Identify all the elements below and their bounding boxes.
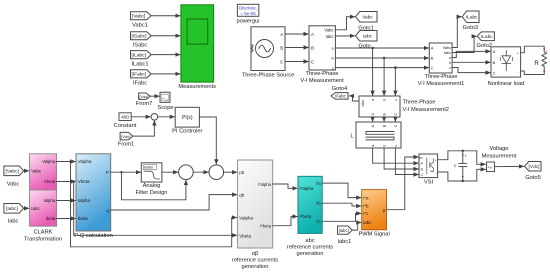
svg-text:Ialpha: Ialpha	[78, 198, 91, 203]
From tag IFabc	[131, 70, 152, 78]
wire Valpha	[57, 161, 76, 163]
svg-text:Three-Phase: Three-Phase	[403, 100, 436, 106]
svg-text:IFabc: IFabc	[335, 94, 345, 99]
svg-text:b: b	[383, 99, 387, 101]
block abc reference currents generation (cyan)	[298, 176, 322, 233]
wire sum1 to PI	[158, 116, 175, 118]
wire source C	[285, 61, 308, 63]
sum block 2	[179, 165, 194, 180]
wire Iabc to CLARK	[24, 207, 29, 209]
wire Ibeta	[57, 218, 76, 220]
svg-text:ILabc1: ILabc1	[131, 61, 148, 67]
svg-text:c: c	[394, 145, 398, 147]
powergui block	[237, 4, 258, 16]
wire sum2 to sum3	[193, 171, 208, 173]
svg-text:ISabc: ISabc	[133, 43, 148, 49]
svg-text:[Vabc]: [Vabc]	[6, 169, 19, 175]
bus wire c	[335, 67, 428, 69]
svg-text:C: C	[394, 124, 398, 127]
svg-text:Ibeta: Ibeta	[46, 216, 56, 221]
sum block 1	[151, 114, 158, 121]
svg-text:iabc1: iabc1	[338, 239, 352, 245]
bus wire a	[335, 47, 428, 49]
svg-text:Goto5: Goto5	[525, 175, 541, 181]
svg-text:i*beta: i*beta	[260, 224, 272, 229]
node Vbeta tap	[73, 180, 75, 182]
svg-text:Iabc: Iabc	[31, 206, 40, 211]
Goto tag Vdc (Goto5)	[525, 162, 542, 172]
svg-text:Goto2: Goto2	[477, 43, 493, 49]
svg-text:A: A	[311, 32, 314, 37]
wire Vabc to CLARK	[24, 170, 29, 172]
svg-text:A: A	[431, 46, 434, 51]
wire i*beta to abc-gen	[273, 217, 298, 226]
svg-text:i*c: i*c	[316, 219, 321, 224]
svg-text:+: +	[465, 154, 468, 159]
wire source A	[285, 33, 308, 35]
From tag Iabc (bottom left)	[4, 204, 24, 214]
resistor R	[542, 49, 547, 71]
svg-text:αβ: αβ	[252, 251, 259, 257]
svg-text:C: C	[431, 65, 434, 70]
svg-text:C: C	[493, 70, 496, 75]
wire From7 to Scope	[150, 95, 159, 97]
svg-text:IFabc: IFabc	[133, 81, 147, 87]
svg-text:i*a: i*a	[363, 195, 369, 200]
wire q to ab-gen qb	[111, 195, 237, 210]
svg-text:V-I Measurement: V-I Measurement	[300, 78, 344, 84]
svg-text:Vabc: Vabc	[31, 169, 42, 174]
svg-text:PWM Signal: PWM Signal	[358, 232, 389, 238]
wire Voltage Measurement to Goto5	[495, 165, 524, 167]
svg-text:i*c: i*c	[363, 211, 369, 216]
svg-text:c: c	[394, 99, 398, 101]
svg-text:powergui: powergui	[236, 19, 259, 25]
svg-text:Valpha: Valpha	[78, 159, 92, 164]
svg-text:c: c	[449, 66, 451, 70]
From tag Vdc (From7)	[139, 93, 151, 99]
svg-text:generation: generation	[242, 264, 269, 270]
svg-text:i*alpha: i*alpha	[258, 182, 272, 187]
svg-text:[ISabc]: [ISabc]	[132, 34, 147, 40]
svg-text:Ialpha: Ialpha	[43, 198, 55, 203]
svg-text:+v: +v	[487, 165, 491, 170]
svg-text:+: +	[546, 50, 548, 54]
svg-text:PI Controler: PI Controler	[172, 129, 202, 135]
svg-text:Iabc: Iabc	[326, 34, 334, 39]
svg-text:Vabc1: Vabc1	[132, 23, 148, 29]
block P-Q calculation	[76, 154, 111, 231]
svg-text:Iabc: Iabc	[8, 219, 19, 225]
svg-text:A: A	[493, 49, 496, 54]
svg-text:Vabc: Vabc	[324, 28, 333, 33]
svg-text:Goto3: Goto3	[463, 25, 479, 31]
block VSI (inverter)	[419, 154, 438, 178]
svg-text:Iabc: Iabc	[444, 51, 451, 55]
svg-text:Iabc: Iabc	[363, 34, 373, 40]
svg-text:i*beta: i*beta	[300, 214, 312, 219]
svg-text:a: a	[371, 99, 375, 101]
svg-text:VSI: VSI	[424, 179, 434, 185]
svg-text:reference currents: reference currents	[232, 257, 278, 263]
diode D	[500, 51, 512, 71]
wire PI to sum3	[199, 117, 216, 164]
From tag iabc1	[338, 226, 353, 234]
node tap c	[394, 66, 397, 69]
node tap b	[383, 57, 386, 60]
From tag Vdc (From1)	[120, 132, 133, 140]
svg-text:i*a: i*a	[316, 181, 322, 186]
svg-text:P-Q calculation: P-Q calculation	[74, 233, 113, 239]
From tag ISabc	[131, 32, 152, 40]
svg-text:Scope: Scope	[157, 105, 173, 111]
svg-text:[Vdc]: [Vdc]	[529, 164, 540, 170]
svg-text:[Vabc]: [Vabc]	[132, 14, 145, 20]
svg-text:b: b	[383, 145, 387, 147]
block Measurements (green scope subsystem)	[181, 5, 214, 82]
svg-text:B: B	[280, 45, 283, 50]
svg-text:i*b: i*b	[316, 201, 322, 206]
capacitor c branch	[459, 151, 467, 181]
wire Valpha tap to ab-gen	[71, 162, 237, 247]
node tap a	[371, 47, 374, 50]
svg-text:= 5e-05: = 5e-05	[240, 11, 256, 16]
svg-text:P: P	[106, 170, 109, 175]
svg-text:i*alpha: i*alpha	[300, 186, 314, 191]
From tag Vabc (bottom left)	[4, 166, 24, 176]
wires Measurement2 to L	[372, 117, 374, 121]
svg-text:Goto: Goto	[358, 44, 370, 50]
wire tap a down	[372, 48, 374, 95]
wire i*c to PWM	[322, 213, 361, 221]
svg-text:From1: From1	[118, 142, 134, 148]
wire Ialpha	[57, 200, 76, 202]
svg-text:b: b	[331, 57, 333, 61]
svg-text:+: +	[517, 52, 519, 56]
svg-text:[Vdc]: [Vdc]	[121, 134, 130, 139]
svg-text:generation: generation	[297, 251, 324, 257]
wire i*b to PWM	[322, 203, 361, 206]
svg-text:c: c	[332, 66, 334, 70]
svg-text:L: L	[350, 134, 353, 140]
block Three-Phase V-I Measurement2 (rotated)	[359, 96, 400, 117]
svg-text:Measurements: Measurements	[178, 84, 216, 90]
Goto tag Vabc (Goto1)	[356, 12, 378, 23]
svg-text:qb: qb	[239, 192, 245, 197]
block ab reference currents generation (gray)	[238, 160, 273, 248]
svg-text:buffer: buffer	[144, 166, 154, 170]
wire Vabc to Goto1	[335, 17, 354, 30]
block Nonlinear load	[491, 47, 521, 77]
wire load + to R	[521, 46, 545, 53]
svg-text:b: b	[449, 61, 451, 65]
svg-text:[ILabc]: [ILabc]	[132, 53, 146, 59]
node Valpha tap	[69, 160, 71, 162]
block Analog Filter Design	[141, 163, 162, 182]
From tag ILabc1	[131, 51, 152, 59]
svg-text:Ibeta: Ibeta	[78, 216, 89, 221]
wire Measurement1 b to load B	[452, 61, 490, 63]
svg-text:abc: abc	[305, 238, 314, 244]
wire sum3 to pb	[224, 171, 237, 173]
svg-text:Discrete,: Discrete,	[239, 6, 257, 11]
svg-text:CLARK: CLARK	[34, 230, 53, 236]
wire From1 to sum1	[133, 121, 155, 136]
svg-text:+: +	[435, 159, 437, 163]
svg-text:Constant: Constant	[114, 123, 137, 129]
wire load - to R	[521, 71, 545, 75]
svg-text:Voltage: Voltage	[490, 146, 509, 152]
wire Vbeta tap to ab-gen	[74, 182, 237, 236]
svg-text:reference currents: reference currents	[287, 245, 333, 251]
svg-text:PI(s): PI(s)	[182, 115, 193, 121]
block PI Controller	[175, 107, 199, 127]
block PWM Signal (orange)	[362, 190, 387, 230]
wire Measurement1 c to load C	[452, 68, 490, 73]
svg-text:Three-Phase Source: Three-Phase Source	[242, 73, 294, 79]
svg-text:Three-Phase: Three-Phase	[425, 74, 458, 80]
From tag Vabc1	[131, 12, 152, 20]
svg-text:iabc: iabc	[363, 220, 372, 225]
svg-text:Vabc: Vabc	[362, 15, 373, 21]
block Three-Phase Source	[251, 27, 285, 71]
svg-text:B: B	[311, 45, 314, 50]
svg-text:Valpha: Valpha	[239, 215, 253, 220]
wire ISabc to Measurements	[151, 35, 180, 37]
wire source B	[285, 47, 308, 49]
Goto tag ILabc (Goto3)	[462, 11, 479, 23]
svg-text:Vabc: Vabc	[443, 46, 451, 50]
Goto tag Iabc (Goto)	[356, 31, 378, 42]
svg-text:Valpha: Valpha	[42, 159, 56, 164]
svg-text:[Iabc]: [Iabc]	[6, 206, 18, 212]
svg-text:Transformation: Transformation	[24, 237, 62, 243]
wire i*a to PWM	[322, 183, 361, 198]
wire 400 to sum1	[131, 116, 150, 118]
wire L c to VSI C	[395, 148, 418, 175]
svg-text:Iabc: Iabc	[361, 100, 365, 107]
svg-text:From7: From7	[136, 101, 152, 107]
svg-text:Nonlinear load: Nonlinear load	[488, 81, 525, 87]
svg-text:Vabc: Vabc	[7, 182, 20, 188]
svg-text:Analog: Analog	[143, 183, 161, 189]
svg-text:Goto4: Goto4	[332, 86, 348, 92]
wire Measurement1 Iabc to Goto2	[452, 36, 476, 52]
svg-text:a: a	[449, 56, 451, 60]
block Three-Phase V-I Measurement	[309, 26, 335, 70]
svg-text:V-I Measurement2: V-I Measurement2	[403, 107, 449, 113]
svg-text:i*b: i*b	[363, 204, 369, 209]
wire Vabc1 to Measurements	[151, 15, 180, 17]
wire filter to sum2	[162, 171, 178, 173]
svg-text:Vbeta: Vbeta	[78, 179, 90, 184]
wire iabc1 to PWM	[352, 223, 361, 231]
svg-text:pb: pb	[239, 170, 245, 175]
svg-text:g: g	[418, 157, 422, 159]
sum block 3	[209, 165, 224, 180]
svg-text:a: a	[371, 145, 375, 147]
svg-text:ILabc: ILabc	[481, 34, 493, 40]
block Constant 400	[119, 113, 131, 121]
wire L b to VSI B	[384, 148, 418, 169]
svg-text:B: B	[493, 60, 496, 65]
svg-text:[iabc]: [iabc]	[339, 228, 349, 233]
wire Vbeta	[57, 181, 76, 183]
svg-text:[Vdc]: [Vdc]	[140, 95, 149, 99]
block Scope	[160, 92, 170, 102]
bus wire b	[335, 57, 428, 59]
svg-text:R: R	[534, 61, 539, 67]
svg-text:[IFabc]: [IFabc]	[132, 72, 147, 78]
wire IFabc to Measurements	[151, 73, 180, 75]
wire ILabc1 to Measurements	[151, 54, 180, 56]
svg-text:Vbeta: Vbeta	[44, 179, 56, 184]
svg-text:Vbeta: Vbeta	[239, 234, 251, 239]
block Voltage Measurement	[487, 162, 495, 172]
node P tap	[120, 171, 122, 173]
wire Measurement1 a to load A	[452, 51, 490, 57]
wire Measurement1 Vabc to Goto3	[452, 17, 461, 48]
svg-text:A: A	[280, 32, 283, 37]
svg-text:C: C	[394, 113, 398, 116]
wire i*alpha to abc-gen	[273, 184, 298, 188]
wire Iabc to Goto	[335, 35, 354, 37]
block L (three-phase inductor)	[356, 122, 401, 148]
wire VSI + to cap top	[438, 151, 486, 165]
svg-text:400: 400	[121, 115, 129, 121]
wire PWM g to VSI	[387, 157, 419, 210]
block CLARK Transformation	[30, 154, 57, 190]
wire P bypass to sum2	[122, 172, 186, 200]
wire Measurement2 Iabc to Goto4	[350, 96, 360, 101]
wire tap c down	[394, 68, 396, 96]
wire tap b down	[383, 58, 385, 95]
wire VSI - to cap bottom	[438, 169, 486, 181]
svg-text:Filter Design: Filter Design	[136, 190, 168, 196]
wire L a to VSI A	[373, 148, 419, 163]
wire P to filter	[111, 171, 141, 173]
svg-text:ILabc: ILabc	[466, 15, 478, 21]
block Three-Phase V-I Measurement1	[429, 43, 452, 73]
svg-text:V-I Measurement1: V-I Measurement1	[418, 81, 464, 87]
svg-text:B: B	[431, 56, 434, 61]
svg-text:Measurement: Measurement	[482, 153, 517, 159]
svg-text:Three-Phase: Three-Phase	[306, 71, 339, 77]
Goto tag ILabc (Goto2)	[477, 32, 494, 41]
